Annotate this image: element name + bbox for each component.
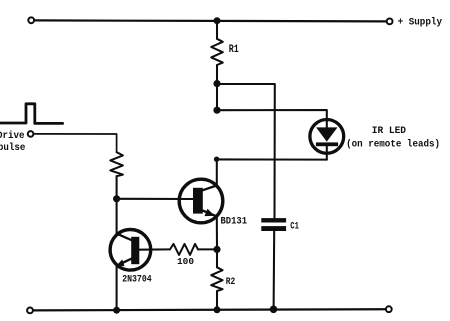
wire: BD131 emitter to R2 node (216, 216, 218, 249)
svg-text:pulse: pulse (0, 142, 25, 154)
svg-text:R2: R2 (226, 277, 236, 288)
wire: resistor to base node (116, 176, 118, 199)
wire: top supply rail (34, 20, 386, 21)
node: supply rail / R1 junction (214, 17, 221, 24)
wire: node A to capacitor C1 branch (217, 84, 275, 218)
node B: LED branch junction (213, 107, 220, 114)
node: Q1 emitter / rail (113, 307, 120, 314)
wire: IR LED cathode to BD131 collector (217, 159, 327, 185)
wire: BD131 base lead (117, 198, 194, 200)
svg-text:R1: R1 (229, 44, 239, 56)
wire: R1 top lead (216, 21, 218, 39)
wire: R1 bottom lead (216, 65, 218, 84)
+ supply terminal (right) (387, 19, 393, 25)
ground terminal (left) (27, 308, 33, 314)
svg-text:100: 100 (177, 256, 194, 267)
resistor R1 (211, 39, 223, 65)
drive pulse input terminal (28, 131, 34, 137)
resistor (base series, unlabeled) (110, 152, 123, 176)
wire: bottom ground rail (33, 309, 386, 310)
wire: input to base resistor (34, 134, 117, 152)
transistor Q2 BD131 (179, 179, 223, 223)
wire: 100R to Q1 base (138, 248, 170, 250)
svg-text:(on remote leads): (on remote leads) (346, 139, 440, 151)
transistor Q1 2N3704 (110, 230, 151, 271)
capacitor C1 (261, 218, 286, 231)
node: Q1 collector / Q2 base junction (113, 195, 120, 202)
ground terminal (right) (386, 306, 392, 312)
resistor R2 (211, 267, 222, 291)
svg-text:BD131: BD131 (221, 216, 248, 227)
drive pulse waveform (0, 104, 63, 124)
svg-text:+ Supply: + Supply (398, 17, 442, 29)
resistor 100 (170, 244, 198, 255)
+ supply input terminal (left) (28, 17, 34, 23)
node: C1 / rail (270, 306, 278, 314)
node A: R1 / C1 branch junction (213, 80, 220, 87)
svg-text:Drive: Drive (0, 130, 25, 142)
node: cathode wire corner (214, 157, 219, 162)
wire: junction to R2 top (216, 249, 218, 267)
wire: junction to 100R resistor (198, 248, 217, 250)
node: R2 / rail (214, 306, 221, 313)
svg-text:IR LED: IR LED (372, 126, 406, 137)
svg-text:2N3704: 2N3704 (122, 275, 152, 286)
svg-text:C1: C1 (290, 221, 299, 232)
node: emitter / 100R junction (213, 246, 220, 253)
wire: node B to IR LED anode (217, 110, 327, 121)
IR LED D1 (310, 119, 344, 159)
wire: node A to node B (216, 84, 218, 111)
wire: node to Q1 collector (116, 199, 118, 234)
wire: Q1 emitter to ground rail (116, 265, 118, 310)
wire: R2 bottom lead (216, 291, 218, 310)
wire: C1 bottom lead (273, 231, 276, 309)
